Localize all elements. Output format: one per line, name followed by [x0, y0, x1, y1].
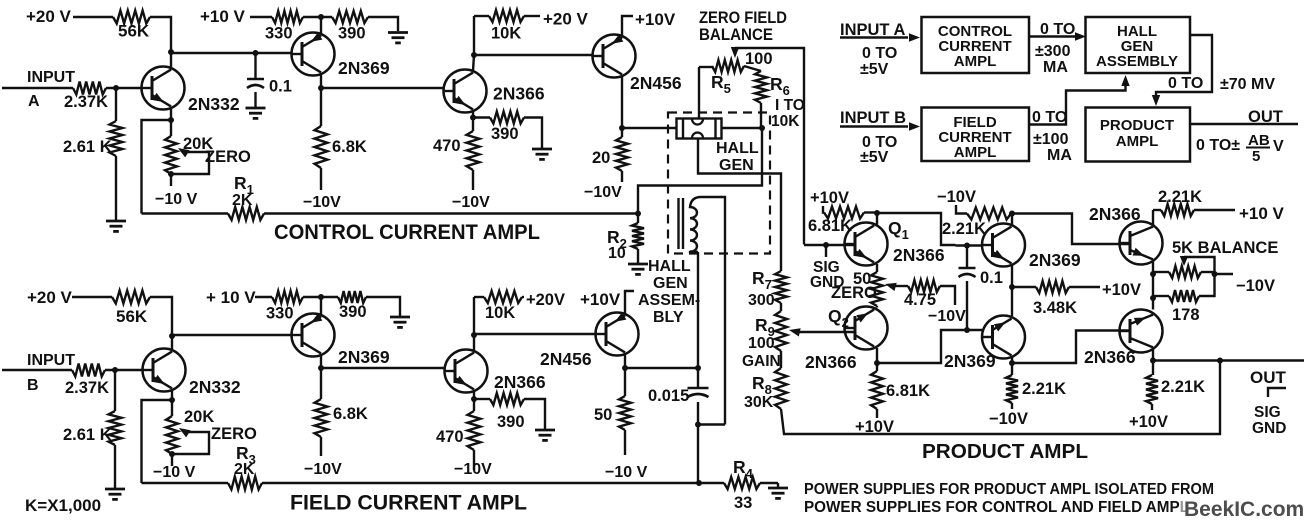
svg-text:10: 10: [608, 245, 626, 262]
svg-text:±100: ±100: [1033, 131, 1069, 148]
potentiometer 20K ZERO (A): [170, 120, 172, 136]
svg-text:+10V: +10V: [635, 10, 676, 29]
svg-text:2N369: 2N369: [338, 58, 390, 78]
wire: [320, 437, 322, 456]
svg-text:2K: 2K: [234, 461, 255, 478]
wire collector +10V: [625, 291, 634, 315]
svg-text:2.37K: 2.37K: [65, 379, 109, 397]
stub SIG GND: [825, 245, 827, 257]
watermark: [1180, 496, 1294, 518]
ground: [535, 429, 555, 432]
wire emitter up: [320, 297, 322, 315]
svg-text:0 TO: 0 TO: [1040, 21, 1075, 38]
wire to 2N366-B base: [321, 367, 444, 369]
svg-text:BeekIC.com: BeekIC.com: [1184, 498, 1304, 521]
potentiometer 20K ZERO (B): [171, 400, 173, 416]
potentiometer R9 100 GAIN: [780, 303, 782, 311]
wire to lower right 2N366 base: [1012, 331, 1130, 364]
transistor 2N369 lower: [982, 316, 1025, 359]
transistor 2N369 (B): [292, 314, 335, 357]
wire: [171, 454, 173, 466]
resistor 56K (A): [113, 11, 150, 24]
resistor 470 (A): [472, 118, 474, 132]
wire: [72, 296, 112, 298]
ground: [777, 483, 779, 487]
svg-text:+10V: +10V: [1102, 281, 1141, 299]
svg-text:PRODUCT: PRODUCT: [1100, 117, 1174, 134]
svg-text:2N366: 2N366: [493, 84, 545, 104]
svg-text:HALL: HALL: [716, 140, 759, 157]
resistor 6.8K (B): [320, 368, 322, 399]
wire to hall gen: [622, 127, 676, 129]
wire lower base: [956, 329, 983, 331]
svg-text:10K: 10K: [485, 304, 515, 322]
block HALL GEN ASSEMBLY: [1086, 17, 1191, 73]
transistor 2N369 upper: [982, 224, 1025, 267]
svg-text:INPUT B: INPUT B: [840, 109, 906, 127]
svg-text:GEN: GEN: [653, 275, 688, 292]
wire collector to 2N369 base: [171, 52, 292, 54]
svg-text:MA: MA: [1043, 59, 1068, 76]
svg-text:ASSEMBLY: ASSEMBLY: [1096, 53, 1178, 70]
svg-text:SIG: SIG: [1254, 404, 1281, 421]
resistor 2.37K (B): [72, 364, 105, 377]
wire emitter up: [320, 17, 322, 34]
wire: [876, 213, 878, 225]
wire: [303, 16, 332, 18]
node hall right junction: [759, 125, 765, 131]
svg-text:−10V: −10V: [304, 461, 342, 478]
svg-text:0 TO: 0 TO: [862, 45, 897, 62]
ground: [388, 31, 408, 34]
svg-text:2.37K: 2.37K: [64, 93, 108, 111]
svg-text:POWER SUPPLIES FOR CONTROL AND: POWER SUPPLIES FOR CONTROL AND FIELD AMP…: [804, 499, 1189, 516]
svg-text:+10V: +10V: [810, 189, 849, 207]
resistor 390 (A2): [473, 116, 490, 118]
svg-text:100: 100: [745, 50, 773, 68]
wire rail to R4: [262, 482, 724, 484]
resistor 6.8K (A): [320, 88, 322, 126]
svg-text:±70 MV: ±70 MV: [1220, 76, 1275, 93]
transistor 2N369 (A): [292, 33, 335, 76]
transistor 2N456 (B): [596, 313, 639, 356]
wire to upper right 2N366 base: [1012, 214, 1130, 245]
svg-text:BALANCE: BALANCE: [699, 25, 773, 44]
wire hall to product block: [1156, 35, 1212, 97]
wire collector down: [320, 355, 322, 368]
svg-text:MA: MA: [1047, 147, 1072, 164]
wire: [1011, 214, 1013, 226]
svg-text:390: 390: [497, 413, 525, 431]
resistor 3.48K to +10V: [1012, 286, 1036, 288]
wire to 2N456-B base: [474, 333, 595, 335]
wire down to rail: [697, 425, 699, 484]
wire: [150, 17, 171, 52]
svg-text:2.61 K: 2.61 K: [63, 138, 112, 156]
svg-text:−10V: −10V: [584, 184, 622, 201]
svg-text:2.61 K: 2.61 K: [63, 426, 112, 444]
wire: [150, 297, 172, 336]
svg-text:+10V: +10V: [855, 418, 894, 436]
wire rail to R2: [264, 212, 638, 214]
wire: [368, 17, 398, 31]
resistor 390 (B2): [474, 398, 490, 400]
svg-text:2N456: 2N456: [540, 349, 592, 369]
svg-text:10K: 10K: [771, 113, 800, 130]
svg-text:3.48K: 3.48K: [1033, 299, 1077, 317]
hall generator package: [677, 119, 722, 139]
svg-text:2.21K: 2.21K: [1161, 378, 1205, 396]
svg-text:2N366: 2N366: [893, 245, 945, 265]
svg-text:ZERO: ZERO: [205, 148, 251, 166]
svg-text:GEN: GEN: [719, 157, 754, 174]
svg-text:0.1: 0.1: [269, 78, 292, 96]
svg-text:2N366: 2N366: [805, 352, 857, 372]
potentiometer 50 ZERO: [876, 264, 878, 272]
svg-text:0 TO±: 0 TO±: [1196, 137, 1240, 154]
svg-text:2.21K: 2.21K: [1022, 380, 1066, 398]
wire: [170, 52, 172, 67]
wire: [114, 445, 116, 488]
svg-text:V: V: [1273, 138, 1284, 155]
node collector Q 2N332-A: [168, 49, 174, 55]
resistor 2.37K (A): [73, 82, 106, 95]
resistor 2.21K bottom right to +10V: [1152, 361, 1154, 376]
wire: [760, 482, 778, 484]
resistor 330 (B): [272, 291, 303, 303]
block FIELD CURRENT AMPL: [922, 108, 1030, 162]
svg-text:INPUT: INPUT: [27, 69, 75, 86]
wire upper base: [956, 244, 983, 246]
svg-text:6.8K: 6.8K: [332, 138, 367, 156]
wire: [366, 297, 400, 316]
transistor 2N332 (A): [142, 67, 185, 110]
svg-text:2N366: 2N366: [1089, 204, 1141, 224]
svg-text:2N456: 2N456: [630, 73, 682, 93]
resistor R8 30K: [780, 351, 782, 368]
ground: [246, 107, 266, 110]
wire: [760, 103, 762, 128]
svg-text:AB: AB: [1248, 132, 1270, 149]
svg-text:10K: 10K: [491, 25, 521, 43]
ground: [628, 263, 648, 266]
wire to transformer node: [625, 367, 698, 369]
svg-text:−10V: −10V: [454, 461, 492, 478]
transistor Q2 2N366: [845, 307, 888, 350]
wire: [698, 423, 725, 425]
svg-text:6.8K: 6.8K: [333, 405, 368, 423]
resistor 2.21K lower to -10V: [1011, 363, 1013, 375]
wire collector to 2N369-B base: [172, 334, 292, 336]
svg-text:−10V: −10V: [989, 410, 1028, 428]
svg-text:POWER SUPPLIES FOR PRODUCT AMP: POWER SUPPLIES FOR PRODUCT AMPL ISOLATED…: [804, 481, 1214, 498]
block PRODUCT AMPL: [1086, 108, 1191, 162]
svg-text:−10V: −10V: [928, 308, 966, 325]
svg-text:470: 470: [433, 137, 461, 155]
wire to 2N366 base: [321, 87, 444, 89]
wire Q2 collector up to pot: [876, 306, 878, 308]
wire: [320, 168, 322, 190]
wire: [105, 369, 142, 371]
svg-text:5: 5: [1252, 148, 1260, 165]
resistor 2.61K (A): [115, 88, 117, 121]
wire feedback to R1 rail: [142, 120, 172, 214]
svg-text:2N369: 2N369: [338, 347, 390, 367]
svg-text:+10 V: +10 V: [200, 7, 246, 26]
resistor 50 (B): [624, 368, 626, 396]
svg-text:0 TO: 0 TO: [1168, 75, 1203, 92]
svg-text:4.75: 4.75: [904, 291, 936, 309]
node collector 2N332-B: [169, 333, 175, 339]
resistor 390 (B): [338, 291, 366, 303]
svg-text:300: 300: [748, 292, 775, 309]
svg-text:+10 V: +10 V: [1239, 204, 1285, 223]
svg-text:−10V: −10V: [452, 194, 490, 211]
svg-text:GND: GND: [1252, 420, 1286, 437]
svg-text:ZERO: ZERO: [211, 425, 257, 443]
svg-text:+ 10 V: + 10 V: [206, 288, 256, 307]
svg-text:470: 470: [436, 428, 464, 446]
svg-text:20K: 20K: [184, 408, 214, 426]
svg-text:2N366: 2N366: [1084, 347, 1136, 367]
wire winding bottom lead: [697, 252, 699, 368]
svg-text:OUT: OUT: [1250, 368, 1287, 387]
wire collector +10V: [622, 16, 633, 37]
wire control to hall block: [1029, 35, 1076, 37]
wire to -10V: [1215, 273, 1234, 275]
transformer core: [677, 198, 679, 249]
wire to 2N456 base: [474, 54, 593, 56]
svg-text:AMPL: AMPL: [954, 144, 997, 161]
svg-text:+20 V: +20 V: [26, 7, 72, 26]
node: [695, 422, 701, 428]
svg-text:100: 100: [748, 335, 775, 352]
svg-text:−10V: −10V: [303, 194, 341, 211]
wire emitter: [170, 108, 172, 120]
wire feedback to R3 rail: [142, 400, 173, 483]
svg-text:390: 390: [491, 125, 519, 143]
node collector 2N366-A: [471, 52, 477, 58]
svg-text:−10 V: −10 V: [153, 464, 196, 481]
transistor 2N332 (B): [143, 349, 186, 392]
svg-text:0.015: 0.015: [648, 387, 689, 405]
svg-text:±5V: ±5V: [860, 149, 889, 166]
wire out: [1190, 123, 1298, 125]
wire: [106, 87, 142, 89]
transformer winding: [690, 197, 722, 252]
svg-text:A: A: [28, 93, 40, 110]
wire collector up: [473, 335, 475, 351]
ground: [106, 220, 126, 223]
svg-text:2N369: 2N369: [1029, 250, 1081, 270]
transistor 2N456 (A): [593, 35, 636, 78]
transistor 2N366 (B): [445, 350, 488, 393]
svg-text:+20 V: +20 V: [543, 10, 589, 29]
svg-text:OUT: OUT: [1248, 108, 1283, 126]
wire: [170, 174, 172, 186]
wire emitter down: [472, 111, 474, 118]
wire mid node: [1011, 265, 1013, 316]
node Q1 collector: [874, 210, 880, 216]
wire emitter down: [621, 76, 623, 128]
potentiometer R5 100: [699, 66, 712, 68]
wire field to hall block: [1029, 84, 1126, 125]
svg-text:+10V: +10V: [580, 290, 621, 309]
svg-text:20: 20: [592, 149, 610, 167]
svg-text:2.21K: 2.21K: [942, 220, 986, 238]
transistor 2N366 (A): [444, 70, 487, 113]
capacitor 0.1 (product): [966, 246, 968, 269]
svg-text:33: 33: [734, 494, 752, 512]
svg-text:390: 390: [338, 25, 366, 43]
svg-text:330: 330: [266, 305, 294, 323]
wire emitter down: [624, 354, 626, 368]
svg-text:+20V: +20V: [526, 291, 565, 309]
svg-text:±300: ±300: [1035, 43, 1071, 60]
svg-text:178: 178: [1172, 306, 1200, 324]
svg-text:330: 330: [265, 25, 293, 43]
resistor 330 (A): [272, 11, 303, 23]
wire R5 left to hall top pin: [698, 67, 700, 118]
wire Q1 base from zero field balance: [804, 244, 855, 246]
wire emitter to out rail: [1152, 349, 1154, 361]
resistor R7 300: [775, 271, 787, 303]
wire lower emitter: [1011, 357, 1013, 363]
svg-text:5K BALANCE: 5K BALANCE: [1172, 239, 1278, 257]
wire input B: [2, 369, 72, 371]
wire emitter down: [473, 391, 475, 399]
wire to right column: [877, 213, 956, 245]
svg-text:PRODUCT AMPL: PRODUCT AMPL: [922, 441, 1088, 463]
svg-text:FIELD CURRENT AMPL: FIELD CURRENT AMPL: [290, 492, 527, 515]
svg-text:6.81K: 6.81K: [808, 217, 852, 235]
node collector 2N366-B: [471, 332, 477, 338]
resistor R2 10: [637, 214, 639, 224]
svg-text:ASSEM-: ASSEM-: [638, 292, 700, 309]
wire collector up: [473, 55, 474, 71]
wire: [250, 16, 272, 18]
wire collector down: [320, 74, 322, 88]
transistor 2N366 upper right: [1120, 222, 1163, 265]
resistor 390 (A): [332, 11, 368, 23]
svg-text:50: 50: [594, 406, 612, 424]
wire hall bottom pin to R7: [698, 138, 781, 271]
wire zero field balance: [735, 48, 804, 245]
wire Q2 base to R9 wiper: [794, 331, 855, 333]
resistor R6: [744, 66, 761, 71]
resistor 20 (A): [621, 128, 623, 137]
ground: [532, 148, 552, 151]
svg-text:0 TO: 0 TO: [1032, 109, 1067, 126]
svg-text:K=X1,000: K=X1,000: [25, 496, 101, 515]
wire: [115, 156, 117, 220]
svg-text:AMPL: AMPL: [1116, 133, 1159, 150]
svg-text:2N366: 2N366: [494, 372, 546, 392]
svg-text:56K: 56K: [116, 307, 148, 326]
resistor 10K (A): [473, 16, 475, 55]
svg-text:I TO: I TO: [775, 97, 805, 114]
svg-text:56K: 56K: [118, 22, 150, 41]
resistor 470 (B): [473, 399, 475, 411]
wire: [255, 296, 272, 298]
transistor 2N366 lower right: [1120, 310, 1163, 353]
resistor 2.21K top right to +10V: [1152, 210, 1154, 225]
wire R8 to product rail: [781, 361, 1220, 435]
svg-text:GAIN: GAIN: [742, 353, 781, 370]
wire Q2 emitter: [876, 348, 878, 363]
svg-text:−10V: −10V: [1236, 277, 1275, 295]
svg-text:2.21K: 2.21K: [1158, 188, 1202, 206]
svg-text:CONTROL CURRENT AMPL: CONTROL CURRENT AMPL: [274, 221, 540, 244]
svg-text:0.1: 0.1: [980, 269, 1003, 287]
svg-text:2N332: 2N332: [189, 377, 241, 397]
wire emitter: [171, 390, 173, 400]
svg-text:+10V: +10V: [1129, 413, 1168, 431]
resistor 178: [1152, 274, 1154, 298]
resistor 6.81K (Q2) to +10V: [876, 363, 878, 371]
ground: [105, 488, 125, 491]
resistor 10K (B): [473, 297, 475, 335]
svg-text:INPUT: INPUT: [27, 352, 75, 369]
svg-text:−10 V: −10 V: [155, 191, 198, 208]
svg-text:±5V: ±5V: [860, 61, 889, 78]
resistor 2.61K (B): [114, 370, 116, 411]
svg-text:BLY: BLY: [653, 309, 684, 326]
capacitor 0.1 (A): [253, 50, 259, 56]
wire hall right lead: [722, 127, 763, 129]
svg-text:ZERO: ZERO: [831, 284, 877, 302]
wire emitter down: [1152, 261, 1154, 274]
transistor Q1 2N366: [845, 223, 888, 266]
wire winding top lead: [721, 197, 725, 425]
resistor 4.75 to -10V: [893, 285, 908, 287]
svg-text:B: B: [27, 377, 39, 394]
svg-text:2N369: 2N369: [944, 351, 996, 371]
wire to lower 2N366 collector: [1152, 298, 1154, 310]
node R2 top: [635, 211, 641, 217]
svg-text:2N332: 2N332: [188, 94, 240, 114]
dashed box hall gen assembly: [668, 113, 770, 254]
wire: [73, 16, 113, 18]
wire emitter to lower 2N369 base: [877, 330, 956, 363]
svg-text:+20 V: +20 V: [27, 288, 73, 307]
capacitor 0.015: [697, 368, 699, 388]
svg-text:−10V: −10V: [937, 188, 976, 206]
block CONTROL CURRENT AMPL: [922, 17, 1030, 73]
resistor 56K (B): [112, 291, 150, 304]
svg-text:−10 V: −10 V: [605, 464, 648, 481]
svg-text:390: 390: [339, 303, 367, 321]
wire input A: [2, 87, 73, 89]
svg-text:HALL: HALL: [648, 258, 691, 275]
svg-text:AMPL: AMPL: [954, 53, 997, 70]
node upper 2N369 collector: [1009, 211, 1015, 217]
ground: [390, 316, 410, 319]
wire: [303, 296, 338, 298]
svg-text:6.81K: 6.81K: [886, 382, 930, 400]
svg-text:30K: 30K: [744, 394, 774, 411]
out rail: [1153, 359, 1304, 361]
wire hall right pin node to R2: [638, 128, 762, 214]
